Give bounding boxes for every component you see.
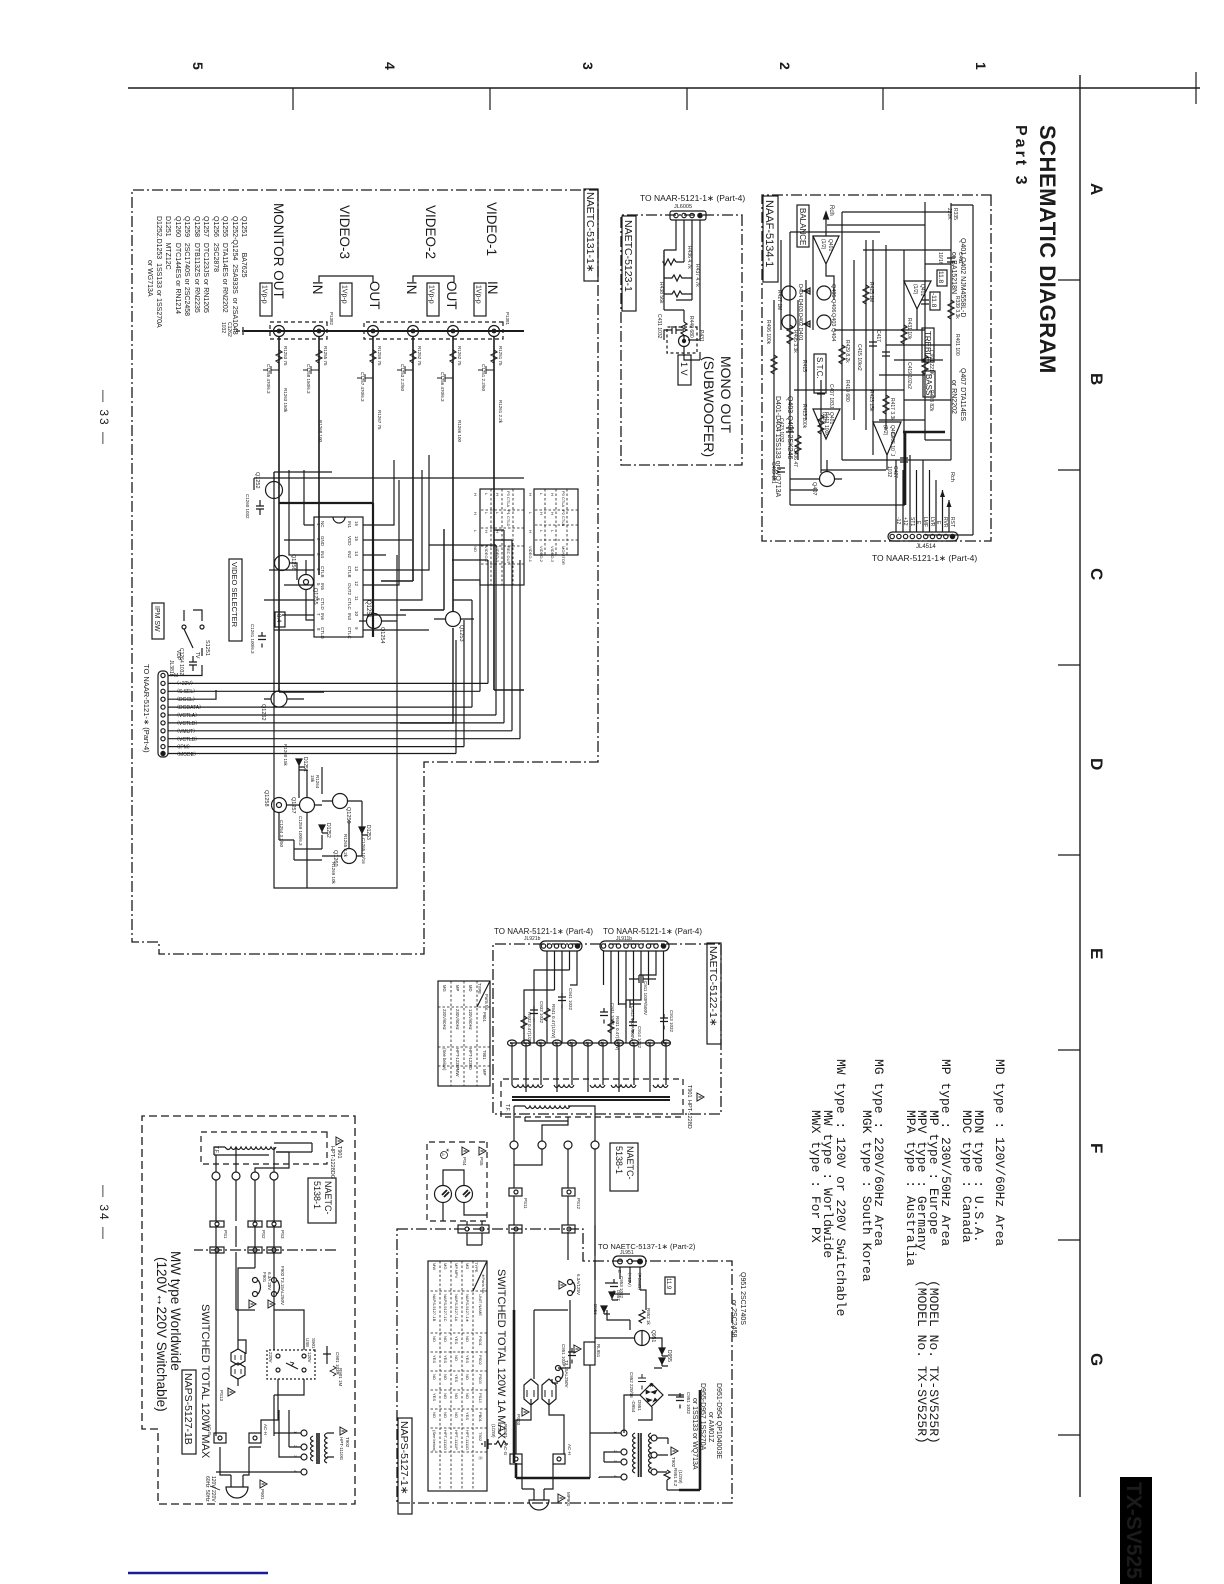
svg-text:Q1253: Q1253 bbox=[458, 625, 464, 642]
svg-text:NAETC-: NAETC- bbox=[323, 1181, 333, 1215]
svg-text:MP901: MP901 bbox=[566, 1492, 571, 1507]
svg-text:(MODEL No. TX-SV525R): (MODEL No. TX-SV525R) bbox=[914, 1280, 929, 1444]
svg-text:TO NAAR-5121-1∗ (Part-4): TO NAAR-5121-1∗ (Part-4) bbox=[640, 193, 745, 203]
connector PS11 bbox=[509, 1188, 528, 1209]
svg-text:C1260 1032: C1260 1032 bbox=[245, 494, 250, 519]
svg-text:(See below): (See below) bbox=[432, 1430, 437, 1452]
transistor Q1254 bbox=[367, 614, 386, 644]
label BASS bbox=[923, 371, 935, 397]
capacitor C901 bbox=[323, 1346, 343, 1387]
jack P431 mono out bbox=[667, 327, 704, 360]
svg-text:MGK type : South Korea: MGK type : South Korea bbox=[859, 1110, 874, 1282]
op-amp Q401 (2/2) bbox=[813, 409, 840, 439]
svg-text:AC-G: AC-G bbox=[503, 1444, 508, 1456]
svg-text:NAETC-: NAETC- bbox=[625, 1146, 635, 1180]
pins bottom bbox=[299, 525, 314, 630]
svg-text:NO: NO bbox=[443, 1412, 448, 1418]
board outline dashed bbox=[142, 1116, 355, 1504]
svg-text:Q1260 DTC144ES or RN1214: Q1260 DTC144ES or RN1214 bbox=[174, 216, 181, 314]
svg-text:L: L bbox=[495, 512, 500, 515]
voltage selector plugs bbox=[219, 1340, 245, 1402]
svg-text:TO NAETC-5137-1∗ (Part-2): TO NAETC-5137-1∗ (Part-2) bbox=[598, 1242, 696, 1251]
label MONO OUT (SUBWOOFER) bbox=[701, 356, 734, 457]
board outline NAETC-5122-1 bbox=[493, 944, 721, 1114]
diode D1251 bbox=[296, 757, 308, 772]
svg-text:P1382: P1382 bbox=[329, 312, 334, 326]
svg-text:R952 1k: R952 1k bbox=[646, 1308, 651, 1326]
svg-text:MWX type : For PX: MWX type : For PX bbox=[808, 1110, 823, 1243]
resistor R409 bbox=[795, 435, 801, 454]
svg-text:MD type : 120V/60Hz Area: MD type : 120V/60Hz Area bbox=[992, 1059, 1007, 1246]
diode D1252 bbox=[319, 823, 331, 838]
svg-text:P2 CTLB: P2 CTLB bbox=[561, 510, 566, 527]
lower area value labels bbox=[279, 744, 366, 885]
svg-text:Q1262: Q1262 bbox=[260, 704, 266, 721]
capacitor C911 bbox=[629, 975, 656, 1015]
svg-text:Q1254: Q1254 bbox=[379, 627, 385, 644]
transformer T901G dashed box bbox=[201, 1132, 327, 1164]
svg-text:C991 221K: C991 221K bbox=[928, 350, 934, 376]
wire op2 output bbox=[916, 309, 918, 330]
jack PJ382 box bbox=[270, 322, 327, 339]
svg-text:RST: RST bbox=[949, 517, 955, 527]
connector bundle wires bbox=[168, 665, 520, 754]
grid numbers bbox=[190, 62, 989, 70]
svg-text:L: L bbox=[528, 512, 533, 515]
svg-text:VIDEO-3: VIDEO-3 bbox=[495, 546, 500, 563]
svg-text:C951 1032: C951 1032 bbox=[686, 1392, 691, 1415]
svg-text:NO: NO bbox=[465, 1336, 470, 1342]
svg-text:H: H bbox=[539, 512, 544, 515]
svg-text:YES: YES bbox=[432, 1355, 437, 1363]
transistor Q1252 bbox=[254, 472, 283, 499]
wire thick feedback bbox=[903, 432, 945, 505]
svg-text:Q1255: Q1255 bbox=[312, 588, 318, 605]
svg-text:C912 103P/500V: C912 103P/500V bbox=[630, 1006, 635, 1040]
capacitor C407 bbox=[817, 390, 825, 394]
lower area wires bbox=[264, 560, 474, 888]
svg-text:R941 0.47(1/2W): R941 0.47(1/2W) bbox=[551, 1004, 556, 1039]
svg-text:AC-H: AC-H bbox=[567, 1444, 572, 1455]
transistor Q403 bbox=[817, 286, 831, 300]
svg-text:IN: IN bbox=[485, 281, 500, 295]
svg-text:RVR: RVR bbox=[942, 517, 948, 528]
svg-text:H: H bbox=[528, 493, 533, 496]
svg-text:VDD: VDD bbox=[347, 536, 352, 546]
connector PS12b bbox=[562, 1225, 575, 1233]
svg-text:JL6005: JL6005 bbox=[674, 204, 692, 210]
label BALANCE bbox=[797, 205, 809, 247]
svg-text:IN2: IN2 bbox=[347, 551, 352, 559]
svg-text:Q402: Q402 bbox=[919, 284, 925, 296]
bracket VIDEO-2 bbox=[413, 276, 454, 282]
svg-text:CTLB: CTLB bbox=[347, 566, 352, 578]
capacitor C415 bbox=[882, 352, 890, 356]
svg-text:F902 T3.15AL250V: F902 T3.15AL250V bbox=[280, 1266, 285, 1305]
left ticks bbox=[293, 88, 883, 110]
svg-text:10: 10 bbox=[354, 611, 359, 617]
svg-text:-D954: -D954 bbox=[631, 1400, 636, 1413]
resistor R951 bbox=[664, 1468, 683, 1487]
pin labels bbox=[895, 517, 955, 528]
svg-text:P0 CTLA: P0 CTLA bbox=[561, 491, 566, 508]
svg-text:MW: MW bbox=[432, 1263, 437, 1270]
board label NAAF-5134-1 bbox=[763, 196, 778, 282]
truth table 1 bbox=[528, 489, 578, 565]
svg-text:A: A bbox=[441, 1153, 446, 1156]
resistor R932 bbox=[521, 1012, 532, 1047]
pins top bbox=[363, 525, 378, 630]
fuse F952 bbox=[559, 1274, 581, 1296]
resistor R425 bbox=[863, 285, 869, 304]
rails right block bbox=[514, 1149, 595, 1310]
transformer T902 bbox=[613, 1430, 678, 1480]
svg-text:Q951 2SC1740S: Q951 2SC1740S bbox=[739, 1272, 746, 1325]
svg-text:SWITCHED TOTAL 120W 1A MAX: SWITCHED TOTAL 120W 1A MAX bbox=[495, 1269, 507, 1440]
svg-text:15: 15 bbox=[354, 536, 359, 542]
svg-text:Q1252: Q1252 bbox=[254, 472, 260, 489]
jack PJ381 box bbox=[364, 322, 503, 339]
svg-text:P901: P901 bbox=[482, 1012, 487, 1022]
jack series resistors 75 bbox=[276, 350, 497, 363]
svg-text:C1254 3.3/50: C1254 3.3/50 bbox=[279, 820, 284, 848]
connector PS2b bbox=[248, 1247, 262, 1253]
svg-text:Q405 Q406: Q405 Q406 bbox=[830, 284, 836, 312]
svg-text:NO: NO bbox=[443, 1374, 448, 1380]
board outline NAETC-5131-1 (L-shape) bbox=[132, 190, 598, 954]
jack VIDEO-2 OUT bbox=[448, 326, 459, 337]
svg-text:NAETC-5122-1∗: NAETC-5122-1∗ bbox=[707, 946, 719, 1027]
svg-text:SWITCHED TOTAL 120W MAX: SWITCHED TOTAL 120W MAX bbox=[199, 1304, 211, 1459]
svg-text:OUT: OUT bbox=[444, 281, 459, 310]
svg-text:14: 14 bbox=[354, 551, 359, 557]
svg-text:+12: +12 bbox=[902, 517, 908, 526]
capacitor C401 bbox=[947, 258, 955, 262]
svg-text:C1258 150/6.3: C1258 150/6.3 bbox=[306, 364, 311, 394]
svg-text:P1 CTLD: P1 CTLD bbox=[506, 510, 511, 527]
svg-text:MG: MG bbox=[442, 985, 447, 992]
svg-text:VIDEO-1: VIDEO-1 bbox=[528, 546, 533, 563]
svg-text:C911 103P/500V: C911 103P/500V bbox=[643, 981, 648, 1015]
top ticks bbox=[1058, 280, 1080, 1435]
svg-text:OUT: OUT bbox=[367, 281, 382, 310]
svg-text:C431 1032: C431 1032 bbox=[656, 314, 662, 339]
svg-text:H: H bbox=[495, 493, 500, 496]
grid letters bbox=[1087, 183, 1106, 1366]
jack VIDEO-3 IN bbox=[314, 326, 325, 337]
svg-text:YES: YES bbox=[432, 1393, 437, 1401]
svg-text:11.9: 11.9 bbox=[665, 1278, 671, 1290]
svg-text:(1/2W): (1/2W) bbox=[491, 1424, 496, 1438]
svg-text:L: L bbox=[473, 530, 478, 533]
svg-text:Q407: Q407 bbox=[811, 482, 817, 495]
junction circles row bbox=[212, 1172, 278, 1180]
svg-text:NAAF-5134-1: NAAF-5134-1 bbox=[763, 200, 775, 267]
thick bus wires bbox=[514, 1310, 590, 1478]
svg-text:1032: 1032 bbox=[220, 322, 226, 333]
svg-text:R437 4.7k: R437 4.7k bbox=[694, 264, 700, 287]
svg-text:NAPS-5127-1∗: NAPS-5127-1∗ bbox=[465, 1294, 470, 1322]
switch S1251 bbox=[175, 610, 210, 661]
svg-text:VIDEO-3: VIDEO-3 bbox=[337, 205, 352, 259]
svg-text:CTLD: CTLD bbox=[320, 627, 325, 640]
svg-text:TO NAAR-5121-1∗ (Part-4): TO NAAR-5121-1∗ (Part-4) bbox=[603, 927, 702, 936]
svg-text:C427: C427 bbox=[892, 466, 898, 478]
svg-text:NAPS-5127-1A: NAPS-5127-1A bbox=[454, 1294, 459, 1322]
svg-text:H: H bbox=[484, 530, 489, 533]
resistor R941 bbox=[544, 1004, 556, 1039]
svg-text:R427 1M: R427 1M bbox=[776, 290, 782, 310]
diode D956 bbox=[593, 1304, 610, 1315]
svg-text:C407 183J: C407 183J bbox=[828, 384, 834, 409]
connector PS3b bbox=[267, 1247, 281, 1253]
jack ground bus bbox=[244, 330, 524, 332]
svg-text:C952 220/16: C952 220/16 bbox=[629, 1372, 634, 1398]
connector JL911b bbox=[600, 936, 669, 951]
svg-text:∗Parts No.: ∗Parts No. bbox=[481, 1274, 486, 1294]
svg-text:Q1259 2SC1740S or 2SC2458: Q1259 2SC1740S or 2SC2458 bbox=[183, 216, 190, 316]
transistor Q406 bbox=[782, 315, 796, 329]
connector PS3 bbox=[267, 1221, 285, 1239]
transistor Q1259 bbox=[333, 794, 352, 824]
connector PS12 bbox=[562, 1188, 581, 1210]
svg-text:MG: MG bbox=[443, 1263, 448, 1269]
svg-text:Parts No.: Parts No. bbox=[484, 994, 489, 1011]
svg-text:R417 3.3k: R417 3.3k bbox=[889, 398, 895, 421]
svg-text:JL911b: JL911b bbox=[616, 936, 632, 942]
svg-text:SCHEMATIC DIAGRAM: SCHEMATIC DIAGRAM bbox=[1035, 125, 1060, 374]
svg-text:C: C bbox=[1087, 568, 1106, 580]
resistor R952 bbox=[639, 1308, 651, 1326]
svg-text:RS501: RS501 bbox=[503, 1424, 508, 1438]
svg-text:REC OUT: REC OUT bbox=[506, 546, 511, 565]
svg-text:T.F.: T.F. bbox=[213, 1146, 219, 1154]
capacitor C931 bbox=[600, 1003, 615, 1026]
board outline dash-dot bbox=[397, 1229, 732, 1503]
svg-text:Q407 DTA114ES: Q407 DTA114ES bbox=[959, 368, 966, 421]
transistor Q407 bbox=[790, 460, 842, 495]
svg-text:YES: YES bbox=[454, 1374, 459, 1382]
wire rails horizontal bbox=[774, 202, 973, 535]
board rails bbox=[216, 1180, 274, 1436]
svg-text:NAPS-5127-1∗: NAPS-5127-1∗ bbox=[398, 1421, 410, 1495]
svg-text:(120V↔220V Switchable): (120V↔220V Switchable) bbox=[154, 1257, 169, 1412]
svg-text:R415: R415 bbox=[801, 360, 807, 372]
svg-text:R901 1M: R901 1M bbox=[338, 1368, 343, 1387]
svg-text:Q1256: Q1256 bbox=[290, 554, 296, 571]
svg-text:2: 2 bbox=[777, 62, 793, 70]
board boundary dash-dot bbox=[194, 1249, 336, 1251]
part list text bbox=[146, 216, 247, 335]
svg-text:HPT-1228P: HPT-1228P bbox=[455, 1048, 460, 1070]
svg-text:IN1: IN1 bbox=[347, 521, 352, 529]
resistor R931 bbox=[608, 1016, 620, 1051]
svg-text:IN4: IN4 bbox=[320, 551, 325, 559]
svg-text:CTLB: CTLB bbox=[320, 566, 325, 578]
board label NAETC-5123-1 bbox=[622, 216, 636, 311]
svg-text:D1251 MTZ12C: D1251 MTZ12C bbox=[164, 216, 171, 270]
svg-text:S.T.C.: S.T.C. bbox=[815, 357, 824, 379]
svg-text:Q1257 DTC123JS or RN1205: Q1257 DTC123JS or RN1205 bbox=[202, 216, 209, 313]
svg-text:R438 56k: R438 56k bbox=[658, 282, 664, 304]
wires from connector bbox=[664, 220, 700, 340]
svg-text:Ⓐ: Ⓐ bbox=[478, 1456, 484, 1460]
wire vertical right bbox=[925, 205, 973, 535]
svg-text:AC-H: AC-H bbox=[263, 1424, 268, 1435]
svg-text:NC: NC bbox=[320, 521, 325, 528]
svg-text:GND: GND bbox=[320, 536, 325, 547]
svg-text:〈VCTLA〉: 〈VCTLA〉 bbox=[174, 713, 200, 719]
svg-text:NAPS-5127-1B: NAPS-5127-1B bbox=[432, 1294, 437, 1322]
transistor Q1257 bbox=[290, 797, 315, 814]
svg-text:PS5: PS5 bbox=[479, 1157, 484, 1166]
svg-text:VIDEO-3: VIDEO-3 bbox=[550, 546, 555, 563]
svg-text:CTLC: CTLC bbox=[347, 598, 352, 611]
svg-text:PS03: PS03 bbox=[478, 1374, 483, 1385]
svg-text:R335: R335 bbox=[952, 208, 958, 220]
svg-text:11.8: 11.8 bbox=[937, 271, 944, 284]
svg-text:or RN2202: or RN2202 bbox=[950, 380, 957, 414]
svg-text:1 V: 1 V bbox=[679, 362, 689, 376]
svg-text:P3 CTLA: P3 CTLA bbox=[506, 491, 511, 508]
svg-text:R1262 75: R1262 75 bbox=[457, 346, 462, 366]
diode D403 D404 bbox=[802, 288, 810, 294]
svg-text:R1263 150k: R1263 150k bbox=[283, 388, 288, 413]
svg-text:(See below): (See below) bbox=[442, 1048, 447, 1071]
svg-text:Q1251 BA7625: Q1251 BA7625 bbox=[240, 216, 247, 278]
svg-text:TYPE: TYPE bbox=[477, 983, 482, 994]
svg-text:YES: YES bbox=[454, 1336, 459, 1344]
svg-text:NAPS-5127-1B: NAPS-5127-1B bbox=[182, 1373, 194, 1445]
svg-text:or 2SC2458: or 2SC2458 bbox=[730, 1300, 737, 1337]
svg-text:PS11: PS11 bbox=[523, 1198, 528, 1209]
capacitor C932 bbox=[530, 1001, 544, 1024]
svg-text:HPT-1228DG: HPT-1228DG bbox=[329, 1146, 335, 1179]
svg-text:12: 12 bbox=[354, 581, 359, 587]
svg-text:R431 10k: R431 10k bbox=[906, 318, 912, 340]
svg-text:C1261 100/6.3: C1261 100/6.3 bbox=[250, 624, 255, 654]
switch S901 dotted box bbox=[267, 1338, 316, 1379]
svg-text:MD: MD bbox=[465, 1263, 470, 1269]
svg-text:L: L bbox=[550, 530, 555, 533]
connector JL4514 bbox=[888, 532, 958, 550]
svg-text:IPM SW: IPM SW bbox=[153, 606, 160, 632]
svg-text:1032: 1032 bbox=[886, 466, 892, 477]
AC plug P901 bbox=[204, 1447, 267, 1502]
svg-text:220V: 220V bbox=[268, 1352, 273, 1363]
svg-text:(1/2): (1/2) bbox=[820, 239, 826, 250]
wire op4 output bbox=[886, 455, 888, 470]
svg-text:Rch: Rch bbox=[949, 472, 955, 482]
svg-text:C932 1032: C932 1032 bbox=[539, 1001, 544, 1024]
svg-text:H: H bbox=[550, 512, 555, 515]
svg-text:230V/50Hz: 230V/50Hz bbox=[455, 1009, 460, 1030]
svg-text:P1381: P1381 bbox=[505, 312, 510, 326]
svg-text:C419 102x2: C419 102x2 bbox=[906, 362, 912, 389]
svg-text:P901: P901 bbox=[260, 1489, 265, 1500]
svg-text:H: H bbox=[550, 493, 555, 496]
svg-text:G: G bbox=[1087, 1353, 1106, 1366]
node -11.8 bbox=[930, 292, 940, 310]
svg-text:16: 16 bbox=[354, 521, 359, 527]
corner stub bbox=[1195, 72, 1197, 104]
svg-text:Q1252-Q1254 2SA933S or 2SA10: Q1252-Q1254 2SA933S or 2SA1048 bbox=[231, 216, 238, 335]
svg-text:MONITOR: MONITOR bbox=[561, 546, 566, 565]
svg-text:T3.15AL250V: T3.15AL250V bbox=[564, 1360, 569, 1388]
svg-text:220V/60Hz: 220V/60Hz bbox=[442, 1009, 447, 1030]
resistor R407 bbox=[771, 355, 777, 374]
svg-text:220V: 220V bbox=[210, 1490, 216, 1502]
svg-text:IN3: IN3 bbox=[347, 613, 352, 621]
svg-text:NO: NO bbox=[432, 1336, 437, 1342]
svg-text:Q403 Q404: Q403 Q404 bbox=[830, 313, 836, 341]
part list texts bbox=[691, 1272, 746, 1470]
node 11.9 bbox=[665, 1277, 675, 1294]
svg-text:VIDEO-2: VIDEO-2 bbox=[539, 546, 544, 563]
capacitor C953 bbox=[610, 1276, 624, 1299]
board label NAPS-5127-1* bbox=[398, 1418, 412, 1514]
svg-text:MD: MD bbox=[468, 985, 473, 992]
svg-text:OUT2: OUT2 bbox=[347, 583, 352, 595]
svg-text:VIDEO-1: VIDEO-1 bbox=[484, 202, 499, 256]
svg-text:〈DGDATA〉: 〈DGDATA〉 bbox=[174, 705, 204, 711]
board label NAETC-5122-1* bbox=[707, 943, 721, 1044]
connector AC-G right bbox=[503, 1444, 522, 1464]
svg-text:C1251 2.2/50: C1251 2.2/50 bbox=[481, 364, 486, 392]
svg-text:H: H bbox=[495, 530, 500, 533]
label S.T.C. bbox=[814, 354, 826, 393]
svg-text:Q1256 2SC2878: Q1256 2SC2878 bbox=[212, 216, 219, 272]
svg-text:NO: NO bbox=[465, 1393, 470, 1399]
svg-text:VIDEO-2: VIDEO-2 bbox=[484, 546, 489, 563]
svg-text:〈VMUT〉: 〈VMUT〉 bbox=[174, 729, 198, 735]
svg-text:PS12: PS12 bbox=[576, 1198, 581, 1210]
svg-text:MP´: MP´ bbox=[482, 1069, 487, 1077]
label VIDEO SELECTER bbox=[229, 559, 242, 641]
svg-text:R436 4.7k: R436 4.7k bbox=[686, 246, 692, 269]
op-amp Q402 (2/2) bbox=[873, 422, 901, 455]
svg-text:MP.MPV: MP.MPV bbox=[454, 1263, 459, 1279]
svg-text:L: L bbox=[539, 530, 544, 533]
svg-text:D404 D403: D404 D403 bbox=[797, 284, 803, 312]
svg-text:B: B bbox=[1087, 373, 1106, 385]
svg-text:R1269 10k: R1269 10k bbox=[331, 862, 336, 885]
svg-text:R1253 75: R1253 75 bbox=[283, 346, 288, 366]
svg-text:Q1255 DTA114ES or RN2202: Q1255 DTA114ES or RN2202 bbox=[221, 216, 228, 313]
transistor Q405 bbox=[782, 286, 796, 300]
fuse F951 bbox=[556, 1360, 570, 1388]
svg-text:R1252 75: R1252 75 bbox=[417, 346, 422, 366]
svg-text:Q951: Q951 bbox=[650, 1330, 656, 1342]
svg-text:R403 82k: R403 82k bbox=[928, 390, 934, 412]
svg-text:C1264 1032: C1264 1032 bbox=[178, 648, 184, 675]
svg-text:MONO OUT: MONO OUT bbox=[718, 356, 734, 433]
svg-text:T902: T902 bbox=[478, 1432, 483, 1442]
connector pair from plugs bbox=[458, 1221, 489, 1245]
svg-text:5: 5 bbox=[190, 62, 206, 70]
svg-text:(SUBWOOFER): (SUBWOOFER) bbox=[701, 356, 717, 457]
svg-text:C1259 100/6.3: C1259 100/6.3 bbox=[298, 816, 303, 846]
svg-text:MW type Worldwide: MW type Worldwide bbox=[168, 1251, 183, 1371]
svg-text:C1256 470/6.3: C1256 470/6.3 bbox=[440, 372, 445, 402]
svg-text:L: L bbox=[539, 493, 544, 496]
svg-text:Q401: Q401 bbox=[827, 239, 833, 251]
capacitor C427 bbox=[900, 458, 908, 462]
label 1V box bbox=[678, 355, 691, 385]
connector AC-H right bbox=[553, 1444, 572, 1464]
svg-text:TO NAAR-5121-∗ (Part-4): TO NAAR-5121-∗ (Part-4) bbox=[142, 664, 151, 753]
svg-text:PS02: PS02 bbox=[478, 1355, 483, 1366]
